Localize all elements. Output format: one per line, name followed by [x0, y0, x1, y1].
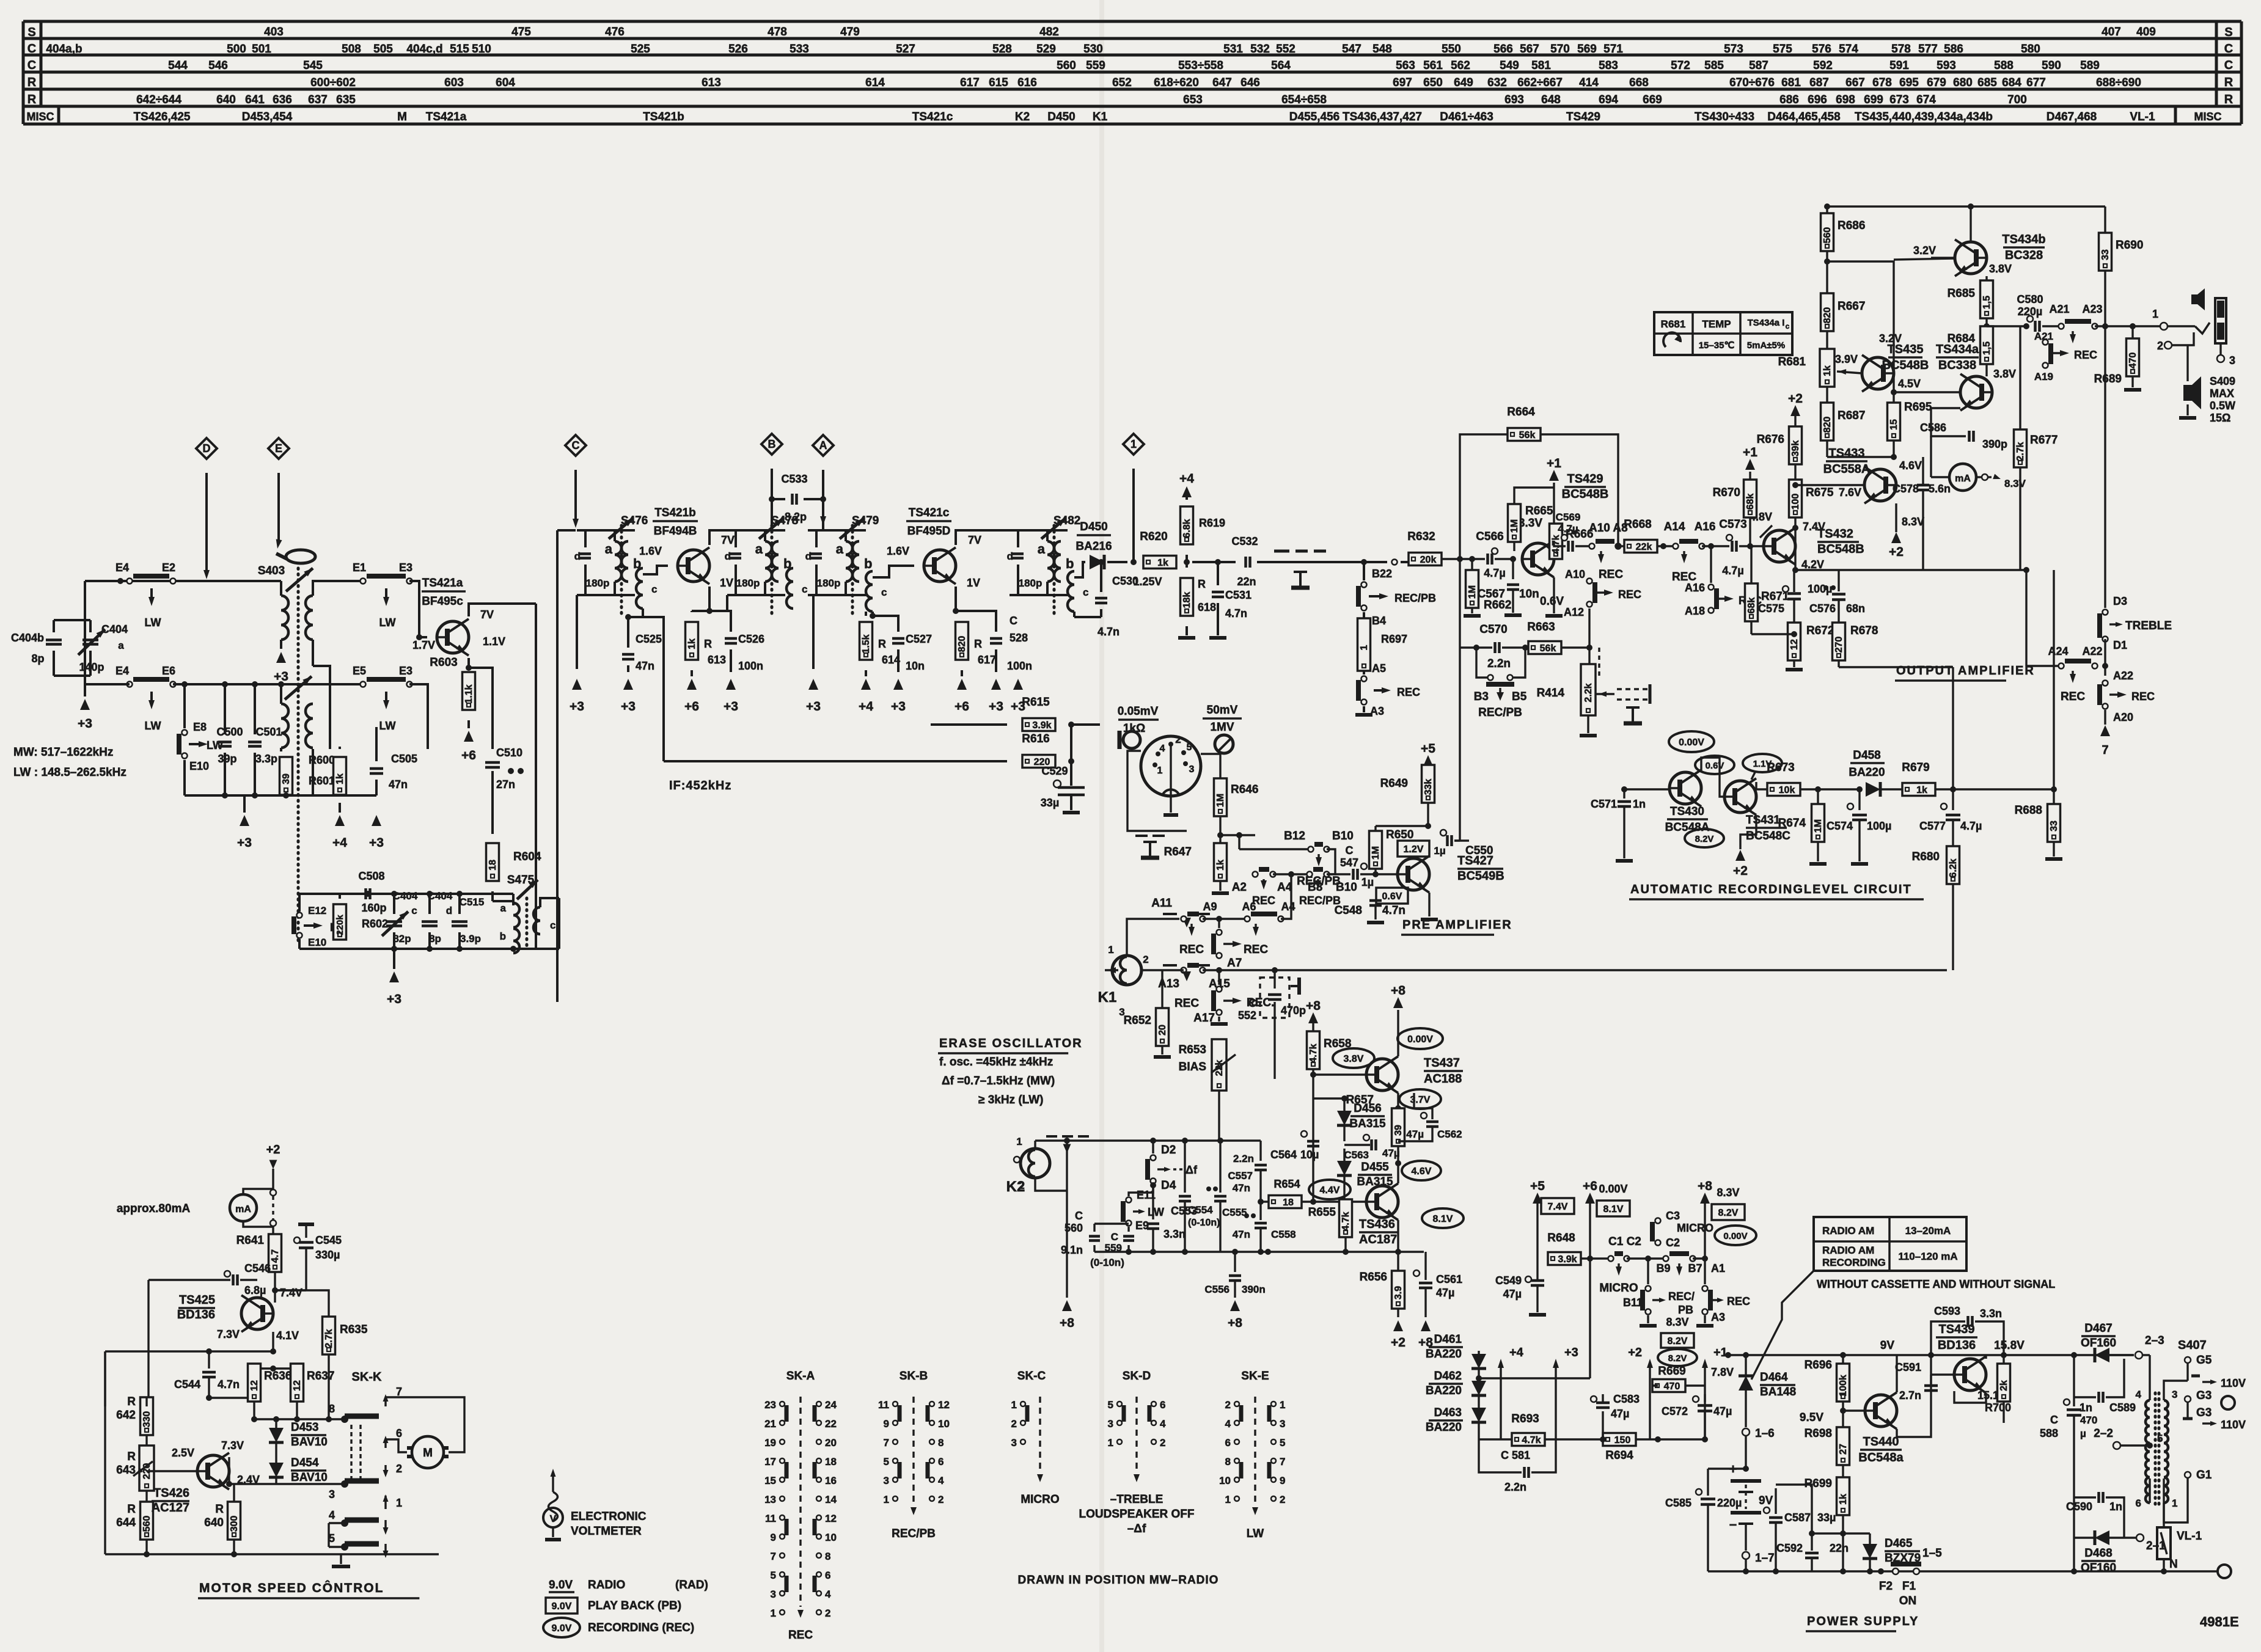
- svg-text:R641: R641: [236, 1234, 265, 1247]
- svg-text:1M: 1M: [1371, 846, 1381, 860]
- svg-text:C3: C3: [1666, 1210, 1680, 1222]
- svg-text:1: 1: [771, 1607, 776, 1619]
- transistor TS439: [1954, 1359, 1986, 1391]
- svg-text:C508: C508: [358, 870, 384, 882]
- svg-text:N: N: [2169, 1558, 2178, 1571]
- svg-text:E12: E12: [308, 905, 326, 916]
- svg-text:3.9: 3.9: [1393, 1286, 1404, 1299]
- resistor R635: [323, 1317, 335, 1354]
- supply +2 TS431: [1740, 815, 1756, 849]
- svg-text:581: 581: [1531, 59, 1551, 72]
- svg-text:D464: D464: [1760, 1371, 1788, 1384]
- svg-text:673: 673: [1889, 93, 1909, 106]
- svg-text:REC/PB: REC/PB: [1394, 592, 1436, 604]
- svg-text:603: 603: [444, 76, 464, 89]
- svg-text:23: 23: [764, 1399, 776, 1411]
- svg-text:C: C: [572, 439, 580, 451]
- svg-text:4.7n: 4.7n: [1225, 607, 1247, 619]
- svg-text:566: 566: [1493, 43, 1513, 56]
- switch A11 A9: [1181, 916, 1187, 922]
- svg-text:27: 27: [1838, 1444, 1849, 1455]
- svg-text:B: B: [768, 438, 776, 450]
- svg-text:6.8µ: 6.8µ: [244, 1284, 266, 1296]
- svg-text:47µ: 47µ: [1436, 1287, 1454, 1299]
- svg-text:A3: A3: [1711, 1311, 1725, 1323]
- coil c of S478: [786, 568, 793, 609]
- svg-text:632: 632: [1487, 76, 1507, 89]
- capacitor C501: [254, 684, 256, 734]
- svg-text:+6: +6: [955, 700, 969, 714]
- supply +6 under R603: [467, 720, 470, 728]
- svg-text:ELECTRONIC: ELECTRONIC: [571, 1510, 647, 1523]
- svg-text:R668: R668: [1624, 518, 1651, 531]
- svg-text:C544: C544: [174, 1378, 200, 1391]
- svg-text:R: R: [704, 638, 712, 650]
- svg-text:LW: LW: [379, 616, 396, 629]
- svg-text:E2: E2: [162, 561, 175, 574]
- svg-text:C: C: [2050, 1414, 2058, 1426]
- svg-text:B22: B22: [1372, 568, 1392, 580]
- diode D455: [1337, 1161, 1352, 1175]
- svg-text:A23: A23: [2082, 303, 2102, 315]
- svg-text:15: 15: [1889, 419, 1899, 430]
- wire TS421b emitter to R613: [692, 587, 709, 611]
- svg-text:533: 533: [790, 43, 809, 56]
- capacitor C590: [2074, 1496, 2096, 1498]
- svg-text:+2: +2: [1733, 864, 1748, 878]
- svg-text:C566: C566: [1476, 530, 1503, 543]
- wire rail from R686 up: [1826, 206, 1828, 213]
- svg-text:8: 8: [825, 1551, 830, 1562]
- svg-text:BA216: BA216: [1076, 540, 1112, 553]
- capacitor C546: [224, 1271, 230, 1277]
- svg-text:1: 1: [1225, 1494, 1231, 1505]
- svg-text:B8: B8: [1308, 881, 1322, 894]
- capacitor C581: [1479, 1439, 1513, 1472]
- svg-text:C526: C526: [738, 633, 764, 645]
- wire R686 node to TS434b TS435: [1827, 261, 1894, 357]
- svg-text:R: R: [2224, 93, 2234, 106]
- wire TS430 collector to TS431 base: [1701, 758, 1724, 797]
- svg-text:662÷667: 662÷667: [1517, 76, 1563, 89]
- resistor R690: [2104, 206, 2106, 233]
- resistor R670: [1744, 480, 1757, 517]
- svg-text:2k: 2k: [1999, 1380, 2009, 1391]
- svg-text:68k: 68k: [1745, 494, 1756, 510]
- svg-text:9: 9: [771, 1532, 776, 1543]
- wire to TS437 base: [1313, 1073, 1366, 1075]
- svg-text:18k: 18k: [1182, 592, 1192, 609]
- svg-text:c: c: [651, 583, 657, 595]
- svg-text:AC187: AC187: [1359, 1233, 1397, 1246]
- wire D458 to R679: [1880, 788, 1902, 790]
- capacitor C508: [364, 888, 367, 899]
- svg-text:BF495c: BF495c: [422, 595, 463, 608]
- wire meter to R646: [1201, 754, 1220, 778]
- svg-text:700: 700: [2007, 93, 2027, 106]
- svg-text:569: 569: [1577, 43, 1597, 56]
- svg-text:12: 12: [1789, 639, 1800, 650]
- svg-text:+5: +5: [1421, 742, 1435, 756]
- svg-text:R600: R600: [309, 754, 335, 766]
- svg-text:b: b: [500, 930, 506, 942]
- svg-text:S409: S409: [2210, 375, 2235, 387]
- svg-text:4.7µ: 4.7µ: [1558, 523, 1578, 535]
- supply +3 under S482: [1017, 595, 1019, 669]
- switch A22 A20 vertical: [2104, 666, 2106, 676]
- capacitor C515: [458, 894, 461, 914]
- svg-text:BC558A: BC558A: [1823, 462, 1871, 476]
- transistor TS437: [1366, 1059, 1398, 1091]
- wire R643 wiper to TS426 base: [153, 1461, 181, 1462]
- svg-text:c: c: [550, 919, 555, 931]
- svg-text:140p: 140p: [79, 661, 104, 673]
- svg-text:2.7n: 2.7n: [1899, 1389, 1921, 1402]
- svg-text:C545: C545: [315, 1234, 342, 1246]
- svg-text:2.7k: 2.7k: [2015, 442, 2026, 461]
- svg-text:S482: S482: [1054, 514, 1080, 527]
- svg-text:150: 150: [1614, 1435, 1631, 1445]
- svg-text:505: 505: [373, 43, 393, 56]
- svg-text:TS429: TS429: [1567, 472, 1603, 486]
- svg-text:9: 9: [884, 1418, 889, 1430]
- terminal bottom right circle: [2218, 1565, 2231, 1578]
- svg-text:TREBLE: TREBLE: [2125, 619, 2172, 632]
- resistor R657: [1392, 1108, 1405, 1146]
- svg-text:8.2V: 8.2V: [1695, 834, 1714, 844]
- svg-text:C529: C529: [1041, 765, 1068, 777]
- svg-text:SK-A: SK-A: [786, 1370, 815, 1383]
- svg-text:8.2V: 8.2V: [1668, 1336, 1688, 1347]
- svg-text:REC: REC: [1727, 1295, 1750, 1307]
- wire left vertical to C404: [84, 581, 86, 620]
- svg-text:F2: F2: [1879, 1580, 1893, 1593]
- wire bottom rail R693: [1479, 1438, 1512, 1440]
- svg-text:TS436: TS436: [1359, 1218, 1395, 1231]
- svg-text:1–6: 1–6: [1755, 1427, 1775, 1440]
- wire C530 top: [1100, 562, 1102, 592]
- svg-text:A22: A22: [2082, 645, 2102, 657]
- wire C404 bottom: [54, 674, 90, 677]
- svg-text:K2: K2: [1015, 111, 1030, 123]
- svg-text:AC127: AC127: [152, 1501, 189, 1515]
- svg-text:RECORDING: RECORDING: [1822, 1257, 1886, 1268]
- label REC/PB at B22: [1369, 595, 1382, 598]
- svg-text:270: 270: [1834, 637, 1844, 653]
- svg-text:d: d: [805, 550, 812, 562]
- svg-text:R665: R665: [1525, 505, 1553, 517]
- switch B12 B10: [1238, 835, 1240, 849]
- svg-text:3.8V: 3.8V: [1993, 368, 2016, 380]
- svg-text:2.2k: 2.2k: [1583, 683, 1594, 702]
- capacitor C559: [1127, 1227, 1129, 1232]
- svg-text:SK-D: SK-D: [1123, 1370, 1151, 1383]
- svg-text:1: 1: [1108, 944, 1113, 956]
- wire head to B22: [1347, 561, 1364, 563]
- svg-text:C570: C570: [1479, 623, 1507, 636]
- svg-text:50mV: 50mV: [1207, 704, 1238, 717]
- capacitor C500: [224, 684, 226, 734]
- svg-text:677: 677: [2026, 76, 2046, 89]
- resistor R641: [269, 1234, 282, 1272]
- dashed marks K2 wire: [1046, 1135, 1057, 1138]
- wire TS427 collector to C550: [1429, 841, 1442, 857]
- svg-text:BIAS: BIAS: [1179, 1061, 1206, 1073]
- svg-text:S478: S478: [771, 514, 798, 527]
- wire D1 down to A24 A22: [2104, 639, 2106, 666]
- boxed 7.4V: [1541, 1198, 1574, 1214]
- LG arrow at E12: [304, 924, 317, 927]
- svg-text:1.6V: 1.6V: [639, 545, 662, 557]
- svg-text:68k: 68k: [1746, 598, 1757, 614]
- svg-text:820: 820: [957, 636, 967, 652]
- wire TS421c emitter to R617: [956, 587, 962, 611]
- svg-text:4: 4: [1225, 1418, 1231, 1430]
- resistor R665: [1508, 504, 1521, 542]
- svg-text:D463: D463: [1434, 1406, 1462, 1419]
- svg-text:A12: A12: [1564, 606, 1584, 618]
- svg-text:R678: R678: [1850, 624, 1878, 637]
- playback head symbol: [1274, 550, 1289, 553]
- wire main to R632: [1409, 561, 1425, 563]
- resistor R669: [1658, 1385, 1669, 1386]
- svg-text:5: 5: [1280, 1437, 1285, 1449]
- svg-text:R615: R615: [1022, 696, 1050, 709]
- SK-K contact 6: [384, 1439, 386, 1448]
- svg-text:550: 550: [1442, 43, 1461, 56]
- svg-text:5mA±5%: 5mA±5%: [1747, 340, 1785, 351]
- svg-text:+3: +3: [387, 992, 401, 1006]
- svg-text:+1: +1: [1713, 1346, 1728, 1359]
- wire C525 node to R616 loop: [628, 617, 664, 761]
- resistor R649: [1423, 755, 1433, 766]
- svg-text:592: 592: [1813, 59, 1833, 72]
- svg-text:C586: C586: [1920, 422, 1946, 434]
- resistor R688: [2053, 789, 2054, 804]
- capacitor C554: [1184, 1141, 1185, 1193]
- supply +3 under S479: [812, 595, 815, 669]
- svg-text:E1: E1: [353, 561, 366, 574]
- svg-text:R646: R646: [1231, 783, 1258, 796]
- svg-text:BA220: BA220: [1849, 766, 1885, 779]
- svg-text:693: 693: [1504, 93, 1524, 106]
- svg-text:d: d: [446, 905, 452, 916]
- transistor TS429: [1522, 543, 1554, 575]
- svg-text:544: 544: [168, 59, 188, 72]
- svg-text:18: 18: [488, 860, 498, 871]
- svg-text:9.1n: 9.1n: [1061, 1244, 1083, 1256]
- wire R671 bottom rail: [1751, 633, 1794, 635]
- switch A21 A23: [2059, 324, 2064, 329]
- wire transformer 5 tap: [2149, 1445, 2150, 1452]
- legend 9.0V PLAY BACK boxed: [546, 1598, 577, 1614]
- resistor R674: [1817, 789, 1819, 804]
- svg-text:R687: R687: [1838, 409, 1865, 422]
- switch A9 A7 vertical: [1218, 919, 1220, 928]
- wire TS425 to R635: [275, 1290, 329, 1317]
- svg-text:7.3V: 7.3V: [221, 1439, 244, 1452]
- jack symbol: [2215, 298, 2226, 343]
- svg-text:0.00V: 0.00V: [1679, 737, 1704, 748]
- ground under A3: [1363, 706, 1365, 712]
- svg-text:R681: R681: [1661, 318, 1686, 330]
- svg-text:C 581: C 581: [1501, 1449, 1530, 1461]
- resistor R613: [686, 622, 698, 660]
- svg-text:3: 3: [2229, 354, 2235, 367]
- svg-text:AUTOMATIC RECORDINGLEVEL CIR: AUTOMATIC RECORDINGLEVEL CIRCUIT: [1630, 883, 1912, 896]
- wire node to switches: [1186, 831, 1187, 835]
- svg-text:REC: REC: [1599, 568, 1623, 581]
- supply +3 under C404: [80, 699, 90, 710]
- capacitor C575: [1783, 586, 1789, 592]
- capacitor C570: [1476, 646, 1492, 648]
- oval 1.1V: [1743, 754, 1782, 772]
- jack G5: [2186, 1364, 2188, 1381]
- svg-text:3.8V: 3.8V: [1344, 1054, 1364, 1064]
- svg-text:615: 615: [989, 76, 1008, 89]
- transistor TS440: [1865, 1395, 1897, 1427]
- svg-text:REC: REC: [1397, 686, 1420, 698]
- svg-text:4: 4: [329, 1509, 335, 1521]
- switch B9 B7: [1663, 1256, 1669, 1262]
- svg-text:A10 A8: A10 A8: [1589, 522, 1628, 535]
- svg-text:S: S: [2224, 26, 2232, 39]
- resistor R602: [339, 894, 341, 899]
- svg-text:68n: 68n: [1846, 602, 1865, 615]
- svg-text:c: c: [411, 905, 417, 916]
- connector diamond 1: [1123, 434, 1144, 455]
- mic DIN connector: [1141, 736, 1201, 796]
- wire to R632: [1364, 561, 1387, 563]
- svg-text:C: C: [1010, 615, 1017, 627]
- switch A11 dashes: [1163, 913, 1177, 915]
- svg-text:110V: 110V: [2221, 1377, 2246, 1389]
- svg-text:REC/: REC/: [1668, 1290, 1695, 1303]
- svg-text:9.0V: 9.0V: [552, 1623, 572, 1634]
- svg-text:618: 618: [1198, 601, 1216, 613]
- svg-text:c: c: [1083, 587, 1088, 598]
- svg-text:669: 669: [1643, 93, 1662, 106]
- svg-text:K1: K1: [1098, 989, 1117, 1006]
- wire right vertical rail to oscillator: [535, 604, 537, 949]
- svg-text:D2: D2: [1161, 1144, 1176, 1157]
- svg-text:R684: R684: [1948, 332, 1976, 345]
- svg-text:+4: +4: [1179, 472, 1194, 486]
- svg-text:20: 20: [825, 1437, 837, 1449]
- capacitor C587: [1764, 1507, 1770, 1513]
- svg-text:MICRO: MICRO: [1677, 1222, 1713, 1234]
- wire TS440 emitter to TS439 base: [1897, 1391, 1931, 1437]
- svg-text:698: 698: [1836, 93, 1855, 106]
- svg-text:TS431: TS431: [1746, 814, 1780, 827]
- svg-text:3: 3: [884, 1475, 889, 1486]
- svg-text:39: 39: [1393, 1125, 1404, 1136]
- svg-text:39p: 39p: [218, 753, 236, 765]
- capacitor C583: [1591, 1396, 1597, 1402]
- svg-text:PB: PB: [1678, 1304, 1693, 1316]
- TS439 collector to rail: [1985, 1355, 1987, 1359]
- svg-text:560: 560: [1822, 227, 1833, 244]
- wire TS431 collector to R673: [1756, 782, 1767, 789]
- wire R648 node down to D461 rail: [1479, 1377, 1590, 1379]
- svg-text:2.2n: 2.2n: [1487, 657, 1511, 670]
- svg-text:C593: C593: [1934, 1305, 1960, 1317]
- svg-text:SK-B: SK-B: [900, 1370, 928, 1383]
- motor wires: [386, 1397, 464, 1452]
- svg-text:BC548A: BC548A: [1665, 821, 1710, 834]
- wire R619 to node: [1185, 555, 1188, 562]
- wire +2 +1 columns: [1649, 1364, 1651, 1439]
- wire c bottom to R614: [871, 612, 874, 616]
- svg-text:1n: 1n: [2080, 1402, 2092, 1414]
- LW arrow under E4 E6: [150, 692, 153, 705]
- capacitor C528: [956, 611, 996, 632]
- svg-text:561: 561: [1423, 59, 1443, 72]
- svg-text:614: 614: [865, 76, 885, 89]
- svg-text:R620: R620: [1140, 530, 1167, 543]
- svg-text:3.3n: 3.3n: [1163, 1228, 1185, 1240]
- resistor R637: [291, 1364, 304, 1402]
- ferrite rod antenna: [286, 550, 315, 563]
- svg-text:559: 559: [1086, 59, 1105, 72]
- wire R642 top: [146, 1351, 147, 1397]
- svg-text:RECORDING (REC): RECORDING (REC): [588, 1621, 694, 1634]
- svg-text:9.0V: 9.0V: [549, 1579, 573, 1592]
- svg-text:1V: 1V: [967, 577, 980, 589]
- svg-text:1: 1: [1359, 645, 1369, 650]
- svg-text:A1: A1: [1711, 1262, 1725, 1274]
- svg-text:(0-10n): (0-10n): [1188, 1218, 1220, 1228]
- svg-text:POWER SUPPLY: POWER SUPPLY: [1807, 1615, 1919, 1628]
- svg-text:C571: C571: [1591, 798, 1617, 810]
- svg-text:8p: 8p: [31, 652, 44, 665]
- svg-text:C: C: [1111, 1231, 1118, 1243]
- wire R700 bottom crossover: [1954, 1403, 2004, 1423]
- svg-text:414: 414: [1579, 76, 1599, 89]
- svg-text:S407: S407: [2178, 1339, 2207, 1352]
- svg-text:S: S: [27, 26, 35, 39]
- switch F2 F1 ON: [1880, 1566, 1882, 1576]
- svg-text:+1: +1: [1743, 445, 1757, 459]
- svg-text:547: 547: [1342, 43, 1361, 56]
- svg-text:OF160: OF160: [2081, 1337, 2116, 1350]
- tuning arrow S403 top: [286, 568, 313, 591]
- svg-text:R650: R650: [1386, 828, 1413, 841]
- top rail output amp: [1827, 205, 2105, 207]
- svg-text:21: 21: [764, 1418, 776, 1430]
- svg-text:553÷558: 553÷558: [1178, 59, 1223, 72]
- svg-text:5: 5: [771, 1570, 776, 1581]
- svg-text:BZX79: BZX79: [1885, 1552, 1921, 1565]
- svg-text:10µ: 10µ: [1300, 1149, 1319, 1161]
- wire left vertical lower: [84, 620, 86, 684]
- ferrite core dotted line: [297, 568, 300, 944]
- capacitor C586: [1930, 392, 1932, 440]
- svg-text:4.7: 4.7: [270, 1249, 280, 1263]
- diode D458: [1866, 782, 1880, 797]
- svg-text:7V: 7V: [721, 534, 735, 546]
- svg-text:2: 2: [825, 1607, 830, 1619]
- svg-text:650: 650: [1423, 76, 1443, 89]
- svg-text:10n: 10n: [1519, 588, 1539, 601]
- svg-text:R656: R656: [1360, 1271, 1387, 1284]
- wire C510 to R604: [491, 771, 494, 834]
- wire A24 left to output stage: [2025, 570, 2027, 666]
- resistor R640: [228, 1502, 241, 1540]
- svg-text:3.3n: 3.3n: [1980, 1307, 2002, 1320]
- resistor R614: [865, 612, 867, 616]
- svg-text:R698: R698: [1805, 1427, 1832, 1440]
